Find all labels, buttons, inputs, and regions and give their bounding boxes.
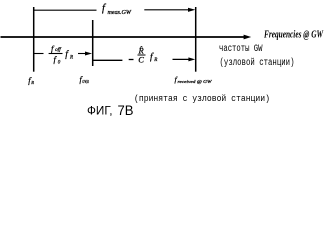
svg-text:f: f [65, 49, 69, 60]
svg-text:f: f [102, 3, 107, 14]
tick bar f_GW,R [92, 20, 94, 66]
tick bar f_R [33, 7, 35, 72]
label f_R under bar 1 [28, 75, 34, 85]
axis arrowhead [244, 35, 252, 40]
svg-text:ФИГ,: ФИГ, [87, 106, 113, 118]
tick bar f_received [195, 7, 197, 72]
svg-text:R: R [69, 56, 73, 61]
dimension line f_meas,GW left segment [34, 9, 97, 11]
label f_meas,GW [102, 3, 132, 16]
svg-text:R: R [153, 58, 157, 63]
svg-text:частоты GW: частоты GW [219, 44, 263, 55]
minus dash of formula [129, 59, 134, 61]
dimension arrowhead into right bar [188, 8, 195, 12]
svg-text:(принятая с узловой станции): (принятая с узловой станции) [134, 93, 270, 104]
label f_received @ GW under bar 3 [175, 75, 213, 84]
svg-text:R: R [30, 80, 34, 85]
label f_off / f_0 fraction [51, 44, 73, 66]
left dimension stub [34, 53, 44, 55]
svg-text:(узловой станции): (узловой станции) [220, 57, 295, 69]
dimension line f_meas,GW right segment [144, 9, 191, 11]
fraction bar R/C [138, 54, 146, 56]
svg-text:GW,R: GW,R [82, 79, 89, 85]
svg-text:meas.GW: meas.GW [108, 10, 133, 16]
svg-text:off: off [55, 48, 61, 53]
svg-text:7В: 7В [118, 103, 134, 118]
label R hat over C times f_R [138, 45, 158, 64]
svg-text:0: 0 [58, 61, 61, 66]
label f_GW,R under bar 2 [80, 75, 89, 85]
left dimension arrow into bar 2 [78, 53, 89, 55]
frequency axis [1, 36, 248, 38]
svg-text:Frequencies @ GW: Frequencies @ GW [263, 30, 324, 41]
svg-text:C: C [138, 55, 144, 65]
svg-text:received @ GW: received @ GW [178, 79, 213, 84]
middle dimension arrow into bar 3 [173, 58, 193, 60]
fraction bar f_off/f_0 [49, 53, 63, 55]
middle dimension stub [93, 59, 123, 61]
